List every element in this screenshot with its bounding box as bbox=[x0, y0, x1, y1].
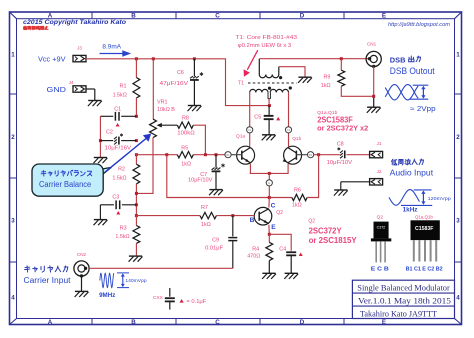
svg-text:R1: R1 bbox=[120, 83, 127, 89]
label R6 value bbox=[292, 187, 302, 208]
svg-text:2: 2 bbox=[11, 134, 15, 141]
resistor R8 bbox=[177, 122, 205, 155]
pin E marker bbox=[266, 180, 272, 186]
junction R9/CN1 shield bbox=[372, 95, 375, 98]
junction Q2 collector node bbox=[268, 196, 271, 199]
svg-text:3: 3 bbox=[456, 218, 460, 225]
svg-text:Carrier Balance: Carrier Balance bbox=[39, 180, 91, 189]
wire Q1 emitters join bbox=[250, 164, 288, 174]
ground (J2) bbox=[334, 190, 348, 196]
junction C2 left bbox=[99, 139, 102, 142]
svg-text:C: C bbox=[215, 13, 220, 20]
svg-text:10μF/16V: 10μF/16V bbox=[105, 145, 132, 151]
svg-text:Q2: Q2 bbox=[308, 218, 315, 224]
svg-text:CN1: CN1 bbox=[367, 42, 377, 47]
svg-text:DSB: DSB bbox=[390, 56, 406, 65]
audio waveform icon bbox=[389, 190, 432, 206]
resistor R4 bbox=[266, 234, 273, 273]
capacitor C7 bbox=[212, 155, 225, 190]
capacitor CXX legend bbox=[153, 288, 207, 310]
svg-text:B: B bbox=[131, 13, 136, 20]
svg-text:R3: R3 bbox=[120, 226, 127, 232]
svg-text:10μF/10V: 10μF/10V bbox=[188, 177, 213, 183]
capacitor C8 bbox=[337, 147, 344, 158]
capacitor C4 bbox=[269, 234, 302, 273]
svg-text:DSB Outout: DSB Outout bbox=[390, 66, 435, 76]
ground (R3) bbox=[129, 256, 143, 262]
label C5 bbox=[254, 115, 261, 121]
wire B1 to Q1a base bbox=[231, 154, 242, 156]
svg-text:VR1: VR1 bbox=[157, 100, 168, 106]
resistor R1 bbox=[133, 59, 140, 117]
svg-text:C8: C8 bbox=[337, 142, 344, 148]
label R2 value bbox=[112, 166, 126, 181]
wire Q1b base to B2 bbox=[296, 154, 307, 156]
connector CN1 bbox=[366, 42, 381, 69]
potentiometer VR1 bbox=[136, 59, 177, 194]
audio input label (English) bbox=[390, 168, 434, 177]
junction emitters bbox=[268, 172, 271, 175]
svg-text:CN2: CN2 bbox=[77, 252, 87, 257]
svg-text:Single Balanced Modulator: Single Balanced Modulator bbox=[357, 282, 450, 292]
label C3 bbox=[112, 194, 119, 200]
svg-text:or 2SC372Y x2: or 2SC372Y x2 bbox=[317, 123, 368, 132]
no-reproduction note (Japanese) bbox=[23, 26, 48, 30]
audio input label (Japanese) bbox=[391, 159, 423, 165]
svg-text:C1583F: C1583F bbox=[415, 226, 433, 232]
transistor Q2 bbox=[254, 207, 272, 225]
pin C1 marker bbox=[247, 127, 253, 133]
capacitor C9 bbox=[228, 216, 237, 269]
svg-text:47μF/16V: 47μF/16V bbox=[160, 81, 189, 87]
connector J4 bbox=[69, 80, 86, 92]
pin C2 marker bbox=[285, 127, 291, 133]
ground (C6) bbox=[188, 106, 202, 112]
svg-text:8.9mA: 8.9mA bbox=[102, 44, 121, 51]
label Q2 pins bbox=[250, 202, 277, 231]
svg-text:E: E bbox=[271, 224, 276, 231]
copyright note bbox=[23, 20, 126, 26]
svg-text:J4: J4 bbox=[69, 80, 74, 85]
resistor R7 bbox=[200, 212, 216, 218]
svg-text:140mVpp: 140mVpp bbox=[125, 278, 147, 283]
ground (C4) bbox=[284, 273, 298, 279]
connector J3 bbox=[73, 45, 86, 62]
junction Q2 emitter bbox=[268, 233, 271, 236]
label C7 value bbox=[188, 172, 213, 183]
svg-text:B1 C1 E C2 B2: B1 C1 E C2 B2 bbox=[406, 266, 443, 272]
ground (T1 secondary) bbox=[298, 77, 312, 83]
connector CN2 bbox=[74, 252, 89, 278]
carrier input label (Japanese) bbox=[25, 266, 68, 272]
junction audio/R6 riser bbox=[317, 153, 320, 156]
svg-text:http://ja9ttt.blogspot.com: http://ja9ttt.blogspot.com bbox=[388, 22, 450, 28]
svg-text:B: B bbox=[250, 217, 255, 224]
junction R2/VR1 bottom bbox=[135, 192, 138, 195]
label T1 bbox=[238, 81, 244, 87]
svg-text:2SC372Y: 2SC372Y bbox=[309, 225, 342, 235]
wire J2 to ground bbox=[341, 182, 370, 190]
callout carrier balance bbox=[32, 164, 111, 196]
svg-text:E: E bbox=[382, 319, 386, 326]
label R4 value bbox=[247, 246, 260, 259]
DSB output label (Japanese) bbox=[390, 56, 421, 65]
wire T1 secondary right lead to ground bbox=[279, 67, 305, 77]
svg-text:10kΩ B: 10kΩ B bbox=[157, 107, 175, 113]
resistor R3 bbox=[133, 216, 140, 256]
svg-text:R7: R7 bbox=[201, 205, 208, 211]
svg-text:Q2: Q2 bbox=[377, 214, 384, 220]
junction output/R9 bbox=[340, 57, 343, 60]
label R9 value bbox=[321, 75, 331, 89]
svg-text:Q1a,Q1b: Q1a,Q1b bbox=[415, 214, 433, 220]
wire Vcc rail bbox=[86, 59, 269, 106]
svg-text:1.5kΩ: 1.5kΩ bbox=[112, 175, 126, 181]
transformer T1 note bbox=[235, 35, 297, 77]
carrier frequency annotation bbox=[99, 293, 115, 299]
svg-text:C372: C372 bbox=[377, 226, 386, 230]
capacitor C3 bbox=[100, 200, 136, 219]
capacitor C6 bbox=[190, 59, 203, 106]
svg-text:GND: GND bbox=[47, 85, 67, 94]
svg-text:E: E bbox=[382, 13, 386, 20]
wire T1 center tap bbox=[268, 99, 270, 106]
resistor R2 bbox=[133, 155, 140, 216]
transistor Q1a bbox=[237, 146, 255, 164]
resistor R5 bbox=[177, 152, 193, 158]
label Q1 package pins bbox=[406, 266, 443, 272]
label VR1 value bbox=[157, 100, 175, 113]
svg-text:1.5kΩ: 1.5kΩ bbox=[113, 93, 127, 99]
svg-text:R2: R2 bbox=[118, 166, 125, 172]
resistor R9 bbox=[338, 59, 374, 97]
svg-text:0.01μF: 0.01μF bbox=[205, 245, 224, 251]
svg-text:J3: J3 bbox=[77, 45, 82, 50]
audio level annotation bbox=[428, 196, 452, 201]
svg-text:10μF/10V: 10μF/10V bbox=[327, 160, 353, 166]
svg-text:Q2: Q2 bbox=[276, 210, 283, 216]
wire Q2 collector bbox=[268, 198, 270, 208]
svg-text:Audio Input: Audio Input bbox=[390, 168, 434, 177]
ground (C7) bbox=[209, 190, 223, 196]
ground (R4) bbox=[262, 273, 276, 279]
junction C9/Q2 base bbox=[231, 214, 234, 217]
svg-text:2: 2 bbox=[456, 134, 460, 141]
junction rail/VR1 bbox=[152, 57, 155, 60]
svg-text:Ver.1.0.1 May 18th 2015: Ver.1.0.1 May 18th 2015 bbox=[358, 295, 451, 305]
wire audio line bbox=[314, 154, 370, 156]
carrier waveform icon bbox=[100, 273, 129, 288]
svg-text:C2: C2 bbox=[287, 128, 291, 132]
capacitor C5 bbox=[264, 106, 281, 135]
transformer T1 bbox=[248, 59, 297, 99]
carrier input label (English) bbox=[24, 276, 72, 285]
resistor R6 bbox=[269, 155, 318, 201]
svg-text:E C B: E C B bbox=[371, 267, 389, 273]
connector J2 bbox=[370, 169, 383, 185]
svg-text:1: 1 bbox=[456, 52, 460, 59]
svg-text:R8: R8 bbox=[182, 116, 189, 122]
svg-text:R5: R5 bbox=[181, 145, 188, 151]
wire emitters to Q2 collector bbox=[268, 173, 270, 197]
junction C1 right bbox=[135, 115, 138, 118]
label R8 value bbox=[177, 116, 194, 137]
svg-text:R6: R6 bbox=[294, 187, 301, 193]
wire R7 line / Q2 base bbox=[136, 215, 254, 217]
ground (CN1) bbox=[367, 107, 381, 113]
svg-text:D: D bbox=[300, 319, 305, 326]
junction C7 tap bbox=[215, 153, 218, 156]
svg-text:4: 4 bbox=[11, 295, 15, 302]
svg-text:C1: C1 bbox=[114, 106, 121, 112]
svg-text:C3: C3 bbox=[112, 194, 119, 200]
wire CN2 to ground bbox=[81, 276, 83, 291]
label C4 bbox=[279, 247, 286, 253]
svg-text:470Ω: 470Ω bbox=[247, 254, 260, 260]
junction R3 top / R7 line bbox=[135, 214, 138, 217]
svg-text:1kΩ: 1kΩ bbox=[321, 83, 331, 89]
junction rail/R1 bbox=[135, 57, 138, 60]
wire DSB output (T1 to CN1) bbox=[259, 58, 370, 60]
DSB waveform icon bbox=[385, 85, 428, 100]
callout arrow to VR1 bbox=[105, 134, 151, 173]
svg-text:CXX: CXX bbox=[153, 295, 164, 301]
label Q2 type bbox=[308, 218, 357, 245]
svg-text:1kΩ: 1kΩ bbox=[292, 203, 302, 209]
wire C1/C2 left bus bbox=[99, 116, 101, 157]
svg-text:C5: C5 bbox=[254, 115, 261, 121]
wire Q2 emitter bbox=[268, 225, 270, 234]
svg-text:J2: J2 bbox=[377, 169, 382, 174]
pin B1 marker bbox=[225, 152, 231, 158]
node GND label bbox=[47, 85, 67, 94]
svg-text:B: B bbox=[131, 319, 136, 326]
svg-text:c2015 Copyright Takahiro Kat: c2015 Copyright Takahiro Kato bbox=[23, 20, 126, 26]
wire T1 to Q1a collector bbox=[249, 92, 251, 146]
svg-text:C6: C6 bbox=[177, 70, 184, 76]
label R7 value bbox=[201, 205, 211, 228]
label Q1b bbox=[292, 136, 301, 142]
ground (C3) bbox=[94, 220, 108, 226]
title block bbox=[352, 280, 454, 318]
svg-text:C: C bbox=[271, 202, 276, 209]
svg-text:C: C bbox=[215, 319, 220, 326]
svg-text:Takahiro Kato JA9TTT: Takahiro Kato JA9TTT bbox=[360, 308, 438, 318]
blog url bbox=[388, 22, 450, 28]
current annotation 8.9mA bbox=[100, 44, 132, 57]
svg-text:C1: C1 bbox=[248, 128, 252, 132]
svg-text:Q1a: Q1a bbox=[236, 134, 245, 140]
svg-text:4: 4 bbox=[456, 295, 460, 302]
wire J4 to ground bbox=[86, 89, 95, 100]
svg-text:1kΩ: 1kΩ bbox=[181, 161, 191, 167]
svg-text:100kΩ: 100kΩ bbox=[177, 131, 194, 137]
wire CN1 shield to ground bbox=[373, 66, 375, 107]
label Q2 package pins bbox=[371, 267, 389, 273]
svg-text:R4: R4 bbox=[252, 246, 259, 252]
label C2 value bbox=[105, 129, 132, 151]
capacitor C1 bbox=[100, 112, 136, 127]
junction C3 tap bbox=[135, 203, 138, 206]
package Q2 TO-92 bbox=[371, 214, 391, 262]
label R1 value bbox=[113, 83, 127, 98]
transistor Q1b bbox=[283, 146, 302, 164]
svg-text:Q1b: Q1b bbox=[292, 136, 301, 142]
connector J1 bbox=[370, 141, 383, 158]
svg-text:T1: Core FB-801-#43: T1: Core FB-801-#43 bbox=[235, 35, 297, 41]
svg-text:1: 1 bbox=[11, 52, 15, 59]
svg-text:A: A bbox=[48, 319, 53, 326]
junction rail/C6 bbox=[193, 57, 196, 60]
capacitor C2 bbox=[100, 133, 136, 144]
ground (CN2) bbox=[75, 291, 89, 297]
node Vcc +9V label bbox=[38, 55, 66, 64]
svg-text:C2: C2 bbox=[106, 129, 113, 135]
label Q1a bbox=[236, 134, 245, 140]
carrier level annotation bbox=[125, 278, 147, 283]
svg-text:C9: C9 bbox=[212, 237, 219, 243]
svg-text:≈ 2Vpp: ≈ 2Vpp bbox=[410, 106, 436, 113]
svg-text:1.5kΩ: 1.5kΩ bbox=[115, 234, 129, 240]
pin B2 marker bbox=[308, 152, 314, 158]
label R5 value bbox=[181, 145, 191, 167]
svg-text:3: 3 bbox=[11, 218, 15, 225]
svg-text:C4: C4 bbox=[279, 247, 286, 253]
svg-text:120mVpp: 120mVpp bbox=[428, 196, 452, 201]
junction R5/R8 drop bbox=[165, 153, 168, 156]
svg-text:D: D bbox=[300, 13, 305, 20]
package Q1 2SC1583 bbox=[411, 214, 440, 261]
svg-text:R9: R9 bbox=[323, 75, 330, 81]
svg-text:1kHz: 1kHz bbox=[403, 207, 418, 213]
wire base bias line bbox=[136, 154, 224, 156]
wire T1 to Q1b collector bbox=[288, 92, 290, 146]
svg-text:Vcc +9V: Vcc +9V bbox=[38, 55, 66, 64]
wire R5 node to Q2 collector line bbox=[167, 155, 269, 198]
svg-text:B1: B1 bbox=[226, 153, 230, 157]
svg-text:= 0.1μF: = 0.1μF bbox=[186, 299, 207, 305]
label C9 value bbox=[205, 237, 224, 251]
svg-text:B2: B2 bbox=[309, 153, 313, 157]
label C6 value bbox=[160, 70, 189, 87]
svg-text:9MHz: 9MHz bbox=[99, 293, 115, 299]
svg-text:A: A bbox=[48, 13, 53, 20]
label Q1 type bbox=[317, 110, 368, 132]
wire carrier input line bbox=[89, 267, 233, 269]
junction Vcc feed / center tap / C5 bbox=[268, 104, 271, 107]
svg-text:E: E bbox=[268, 181, 270, 185]
svg-text:Carrier Input: Carrier Input bbox=[24, 276, 72, 285]
audio frequency annotation bbox=[403, 207, 418, 213]
label C8 value bbox=[327, 142, 353, 167]
svg-text:φ0.2mm UEW 6t x 3: φ0.2mm UEW 6t x 3 bbox=[238, 43, 291, 49]
junction C2 right bbox=[135, 139, 138, 142]
svg-text:1kΩ: 1kΩ bbox=[201, 222, 211, 228]
label C1 bbox=[114, 106, 121, 112]
DSB output label (English) bbox=[390, 66, 435, 76]
label Q2 bbox=[276, 210, 283, 216]
junction R8/base line bbox=[204, 153, 207, 156]
svg-text:T1: T1 bbox=[238, 81, 244, 87]
junction bias/R5 line bbox=[135, 153, 138, 156]
DSB level annotation bbox=[410, 106, 436, 113]
label R3 value bbox=[115, 226, 129, 240]
ground (C1 C2 bus) bbox=[94, 158, 108, 164]
svg-text:or 2SC1815Y: or 2SC1815Y bbox=[309, 235, 357, 245]
ground (C5) bbox=[262, 135, 276, 141]
svg-text:J1: J1 bbox=[377, 141, 382, 146]
ground (J4) bbox=[88, 101, 102, 107]
